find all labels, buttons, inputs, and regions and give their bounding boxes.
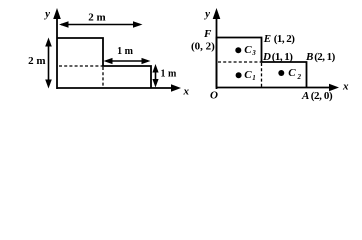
svg-text:C: C bbox=[244, 69, 252, 81]
svg-text:y: y bbox=[203, 8, 210, 20]
svg-text:A: A bbox=[301, 90, 309, 102]
svg-text:2 m: 2 m bbox=[28, 55, 45, 67]
svg-text:(2, 1): (2, 1) bbox=[314, 51, 335, 63]
svg-text:3: 3 bbox=[251, 49, 256, 57]
svg-text:1: 1 bbox=[252, 74, 256, 82]
svg-text:(1, 2): (1, 2) bbox=[274, 33, 295, 45]
svg-text:E: E bbox=[263, 33, 271, 45]
svg-text:(1, 1): (1, 1) bbox=[272, 51, 293, 63]
svg-text:D: D bbox=[262, 51, 271, 63]
svg-text:F: F bbox=[203, 28, 212, 40]
svg-text:1 m: 1 m bbox=[161, 69, 178, 80]
svg-text:2: 2 bbox=[297, 73, 302, 81]
svg-text:(2, 0): (2, 0) bbox=[311, 90, 333, 102]
svg-text:y: y bbox=[43, 8, 50, 20]
svg-text:C: C bbox=[244, 44, 252, 56]
svg-text:C: C bbox=[288, 67, 296, 79]
svg-text:O: O bbox=[210, 89, 218, 101]
svg-text:2 m: 2 m bbox=[88, 12, 105, 24]
svg-text:x: x bbox=[342, 81, 349, 93]
svg-text:B: B bbox=[305, 51, 313, 63]
svg-text:1 m: 1 m bbox=[117, 46, 134, 57]
svg-text:x: x bbox=[183, 86, 190, 98]
svg-text:(0, 2): (0, 2) bbox=[191, 41, 215, 53]
